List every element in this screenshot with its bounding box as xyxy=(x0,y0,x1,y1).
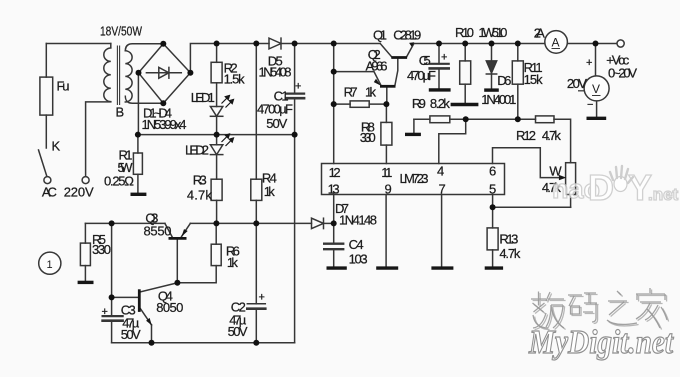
svg-text:C5: C5 xyxy=(419,53,431,68)
svg-text:+: + xyxy=(586,57,592,69)
svg-text:1.5k: 1.5k xyxy=(224,72,246,87)
svg-text:C4: C4 xyxy=(349,237,364,252)
svg-text:20V: 20V xyxy=(567,76,587,91)
svg-text:R10: R10 xyxy=(455,25,474,40)
svg-text:6: 6 xyxy=(489,164,496,179)
svg-text:13: 13 xyxy=(328,182,340,197)
svg-text:0.25Ω: 0.25Ω xyxy=(104,174,134,189)
svg-text:4700µF: 4700µF xyxy=(257,102,293,117)
svg-text:+: + xyxy=(295,81,301,93)
svg-text:0~20V: 0~20V xyxy=(608,66,637,81)
svg-text:5: 5 xyxy=(489,182,496,197)
svg-text:8550: 8550 xyxy=(144,224,172,239)
svg-text:K: K xyxy=(52,139,61,154)
svg-text:50V: 50V xyxy=(266,116,287,131)
svg-text:MyDigit.net: MyDigit.net xyxy=(528,324,674,361)
svg-text:Q1: Q1 xyxy=(373,28,387,43)
svg-text:1W510: 1W510 xyxy=(478,25,507,40)
svg-text:15k: 15k xyxy=(524,72,544,87)
svg-text:LM723: LM723 xyxy=(400,171,429,186)
svg-text:−: − xyxy=(587,99,593,111)
svg-text:4: 4 xyxy=(437,164,444,179)
svg-text:1: 1 xyxy=(47,259,53,271)
svg-text:1N4148: 1N4148 xyxy=(339,213,377,228)
svg-text:11: 11 xyxy=(381,165,392,180)
svg-text:1k: 1k xyxy=(264,184,276,199)
svg-text:R13: R13 xyxy=(499,232,518,247)
svg-text:50V: 50V xyxy=(228,324,248,339)
svg-text:7: 7 xyxy=(439,182,446,197)
svg-text:LED2: LED2 xyxy=(185,143,209,158)
svg-text:+: + xyxy=(259,292,265,304)
svg-text:+: + xyxy=(441,52,447,64)
svg-text:1k: 1k xyxy=(365,85,377,100)
svg-text:4.7k: 4.7k xyxy=(499,246,521,261)
svg-text:1N5408: 1N5408 xyxy=(259,65,292,80)
svg-text:18V/50W: 18V/50W xyxy=(100,24,143,39)
svg-text:AC: AC xyxy=(42,185,57,200)
svg-text:1N5399x4: 1N5399x4 xyxy=(142,117,187,132)
svg-text:A966: A966 xyxy=(366,59,388,74)
svg-text:4.7k: 4.7k xyxy=(542,128,562,143)
svg-text:330: 330 xyxy=(92,242,111,257)
svg-text:LED1: LED1 xyxy=(191,90,215,105)
svg-text:50V: 50V xyxy=(121,327,141,342)
svg-text:B: B xyxy=(116,105,125,120)
svg-text:8050: 8050 xyxy=(156,300,183,315)
svg-text:470µF: 470µF xyxy=(407,68,436,83)
svg-text:R7: R7 xyxy=(344,85,358,100)
svg-text:R9: R9 xyxy=(412,96,426,111)
svg-text:Fu: Fu xyxy=(57,79,70,94)
svg-text:2A: 2A xyxy=(534,26,545,41)
svg-text:+: + xyxy=(102,306,108,318)
svg-text:1N4001: 1N4001 xyxy=(481,92,516,107)
svg-text:330: 330 xyxy=(360,130,376,145)
svg-text:103: 103 xyxy=(349,252,368,267)
svg-text:220V: 220V xyxy=(64,185,94,200)
svg-text:8.2k: 8.2k xyxy=(430,96,451,111)
svg-text:12: 12 xyxy=(329,165,341,180)
svg-text:1k: 1k xyxy=(227,255,239,270)
svg-text:D6: D6 xyxy=(497,73,511,88)
svg-text:R3: R3 xyxy=(193,173,207,188)
svg-text:9: 9 xyxy=(385,182,392,197)
svg-text:A: A xyxy=(552,36,560,50)
svg-text:R12: R12 xyxy=(516,128,536,143)
svg-text:4.7k: 4.7k xyxy=(187,188,213,203)
svg-text:C2819: C2819 xyxy=(393,28,421,43)
svg-text:V: V xyxy=(592,82,600,96)
svg-text:.net: .net xyxy=(648,185,679,204)
